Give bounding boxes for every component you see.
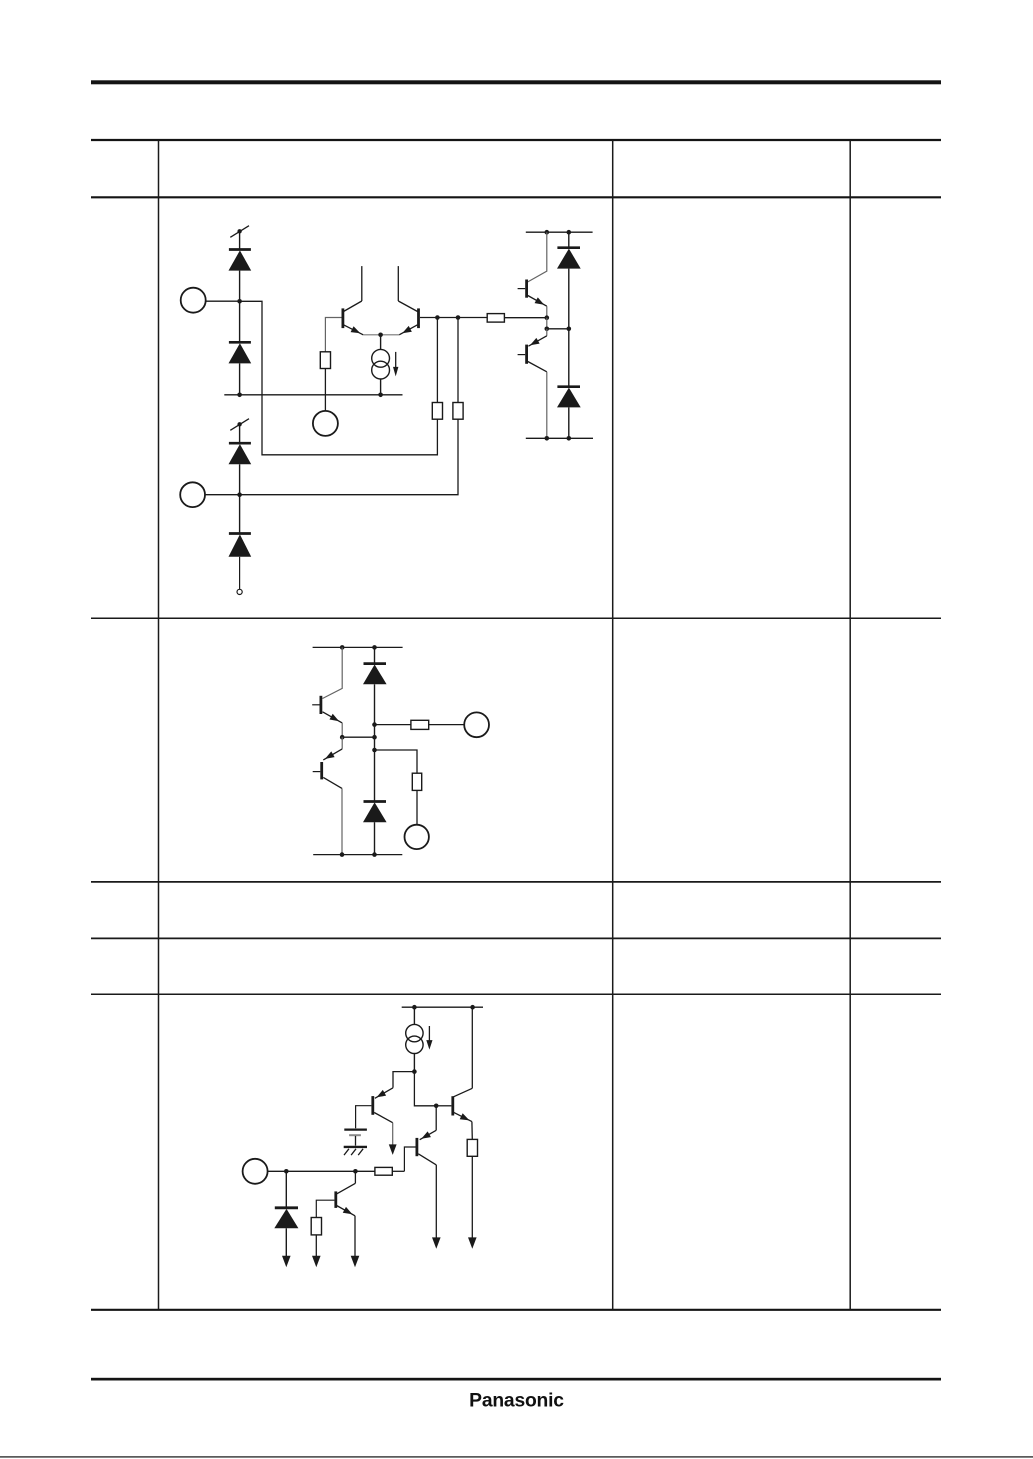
transistor Q6 (PNP bottom) [313, 737, 343, 788]
table column divider 2 [612, 140, 614, 1310]
wire to resistor R8 [375, 750, 418, 773]
wire node C to node D [414, 1072, 436, 1106]
wire node D to Q9 base [436, 1105, 451, 1107]
wire current source to bus [380, 379, 382, 395]
rail dot right [470, 1005, 475, 1010]
pin circle P3 [313, 411, 338, 436]
wire node C to Q7 emitter [375, 1072, 415, 1101]
node dot column [372, 735, 377, 740]
wire Q6 collector to bottom rail [341, 788, 343, 854]
wire mid to diode column [547, 328, 569, 330]
wire D2 to bus [239, 363, 241, 394]
bottom rail dot left [340, 852, 345, 857]
bottom supply rail [313, 854, 402, 856]
node B junction dot [237, 492, 242, 497]
footer rule [91, 1378, 941, 1381]
junction dot Q10 collector [353, 1169, 358, 1174]
wire rail to diode D7 [374, 647, 376, 663]
transistor Q4 (output bottom, PNP) [518, 329, 547, 372]
wire node D to Q8 emitter [420, 1106, 437, 1142]
wire rail to Q3 collector [528, 232, 547, 282]
junction dot base-R6 [456, 315, 461, 320]
wire R7 to pin P4 [429, 724, 465, 726]
diode column wire [374, 684, 376, 801]
junction dot bus-left [237, 393, 242, 398]
diode D1 [229, 250, 252, 271]
resistor R9 (horizontal) [375, 1167, 392, 1175]
wire rail to Q5 collector [323, 647, 343, 698]
table row3 bottom border [91, 937, 941, 939]
wire P6 to R9 [268, 1170, 375, 1172]
transistor Q3 (output top, NPN) [518, 280, 547, 308]
rail dot left [412, 1005, 417, 1010]
wire R3 to pin P3 [324, 369, 326, 411]
wire P2 to node B [205, 494, 240, 496]
transistor Q10 (NPN bottom) [334, 1183, 355, 1217]
wire R11 to arrow [312, 1235, 321, 1267]
wire junction to diode D9 [285, 1171, 287, 1208]
wire Q5 emitter to node [341, 723, 343, 737]
top page rule [91, 80, 941, 84]
rail dot right [372, 645, 377, 650]
wire R9 to Q8 base [392, 1170, 404, 1172]
internal-connection slash symbol (top of D3 chain) [230, 419, 249, 431]
table bottom border [91, 1309, 941, 1311]
pin circle P5 [405, 825, 429, 849]
wire Q2 base to R4 [420, 317, 487, 319]
page bottom hairline [0, 1456, 1033, 1457]
transistor Q1 (diff pair left, NPN) [342, 266, 364, 336]
junction dot to R8 [372, 748, 377, 753]
wire emitter node to current source [380, 335, 382, 350]
junction dot diode column [567, 327, 572, 332]
diode D3 [229, 443, 252, 464]
diode D6 [557, 387, 581, 408]
bottom rail dot right [567, 436, 572, 441]
wire rail to diode D5 [568, 232, 570, 248]
capacitor C1 [344, 1130, 367, 1146]
wire node B to R6 bottom [240, 419, 458, 495]
resistor R7 (horizontal) [411, 720, 429, 729]
wire Q7 collector to arrow [389, 1123, 397, 1155]
table column divider 3 [849, 140, 851, 1310]
resistor R5 [432, 403, 442, 420]
current direction arrow [426, 1026, 432, 1050]
pin circle P4 [464, 712, 489, 737]
wire to R6 [457, 318, 459, 403]
transistor Q9 (NPN right) [451, 1088, 472, 1123]
pin circle P2 [180, 482, 205, 507]
transistor Q5 (NPN top) [312, 696, 342, 724]
node C junction dot [412, 1069, 417, 1074]
pin circle P6 [243, 1159, 268, 1184]
bus wire (horizontal) [224, 394, 402, 396]
resistor R4 (horizontal) [487, 314, 504, 323]
common emitter segment [363, 334, 399, 336]
rail dot right [567, 230, 572, 235]
wire Q10 base to R11 [316, 1200, 334, 1217]
current direction arrow [393, 352, 398, 377]
top supply rail (right section) [526, 231, 593, 233]
wire current source to node C [413, 1054, 415, 1072]
transistor Q2 (diff pair right, NPN) [398, 266, 420, 336]
wire R8 to pin P5 [416, 790, 418, 824]
table row1 bottom border [91, 617, 941, 619]
wire slash to D3 [239, 424, 241, 443]
table header bottom border [91, 196, 941, 198]
wire Q9 collector to rail [471, 1007, 473, 1088]
wire node A to R5 bottom (elbow) [240, 301, 438, 455]
resistor R8 (vertical) [412, 773, 421, 790]
table row4 bottom border [91, 993, 941, 995]
svg-text:Panasonic: Panasonic [469, 1390, 564, 1411]
node dot left [340, 735, 345, 740]
resistor R11 [311, 1218, 321, 1235]
bottom rail dot left [545, 436, 550, 441]
wire node A to D2 [239, 301, 241, 342]
top supply rail [313, 646, 403, 648]
diode D9 [274, 1208, 298, 1229]
diode D2 [229, 342, 252, 363]
diode D7 [363, 664, 387, 685]
wire D6 to bottom rail [568, 407, 570, 438]
junction dot base-R5 [435, 315, 440, 320]
resistor R10 [467, 1139, 477, 1156]
resistor R6 [453, 403, 463, 420]
wire rail to current source [413, 1007, 415, 1024]
wire D9 to arrow [282, 1228, 291, 1267]
transistor Q8 (PNP mid) [404, 1138, 436, 1171]
wire Q10 emitter to arrow [351, 1216, 360, 1267]
wire D3 to node B [239, 464, 241, 494]
open terminal circle [237, 589, 242, 594]
wire Q10 collector to junction [354, 1171, 356, 1183]
wire to R5 [436, 318, 438, 403]
wire R10 to arrow [468, 1156, 477, 1249]
wire P1 to node A [206, 300, 240, 302]
node D junction dot [434, 1104, 439, 1109]
wire Q1 base to R3 [325, 318, 341, 352]
wire D8 to bottom rail [374, 822, 376, 854]
wire D1 to node A [239, 271, 241, 302]
wire D5 to junction [568, 269, 570, 387]
wire node B to D4 [239, 495, 241, 534]
transistor Q7 (PNP) [356, 1096, 393, 1128]
internal-connection slash symbol (top of D1 chain) [230, 226, 249, 238]
rail dot left [340, 645, 345, 650]
resistor R3 [320, 352, 330, 369]
current source I2 [406, 1024, 423, 1053]
wire to resistor R7 [375, 724, 411, 726]
ground [344, 1147, 367, 1155]
output node dot [545, 315, 550, 320]
top supply rail [402, 1006, 483, 1008]
wire output node down [546, 318, 548, 329]
diode D8 [363, 802, 387, 823]
wire Q9 emitter to R10 [471, 1122, 473, 1140]
junction dot to R7 [372, 722, 377, 727]
wire slash to D1 [239, 231, 241, 249]
wire Q8 collector to arrow [432, 1165, 441, 1249]
wire Q3 emitter to output node [546, 306, 548, 318]
junction dot diode [284, 1169, 289, 1174]
table row2 bottom border [91, 881, 941, 883]
rail dot left [545, 230, 550, 235]
emitter node dot [378, 333, 383, 338]
junction dot mid [545, 327, 550, 332]
wire Q4 collector to bottom rail [546, 372, 548, 439]
table header top border [91, 139, 941, 141]
table column divider 1 [158, 140, 160, 1310]
junction dot bus-right [378, 393, 383, 398]
bottom rail dot right [372, 852, 377, 857]
diode D4 [229, 534, 252, 557]
diode D5 [557, 248, 581, 269]
bottom supply rail (right section) [526, 437, 593, 439]
current source I1 [372, 349, 390, 379]
node A junction dot [237, 299, 242, 304]
pin circle P1 [181, 288, 206, 313]
wire R4 to output node [504, 317, 546, 319]
wire D4 to open terminal [239, 557, 241, 590]
wire node to diode column [342, 736, 374, 738]
